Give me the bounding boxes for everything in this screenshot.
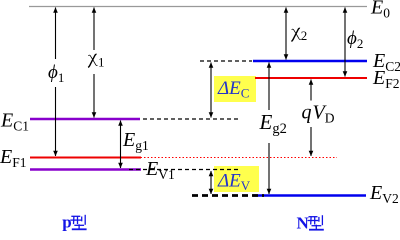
svg-text:N: N [297,214,310,233]
vacuum level E0 line [29,6,367,8]
band gap Eg2 arrow lower [268,143,270,194]
svg-text:1: 1 [98,55,105,70]
conduction band offset dEC arrow [210,63,212,118]
dashed extension of EC1 [143,118,239,120]
svg-text:2: 2 [301,28,308,43]
svg-text:EC1: EC1 [0,110,29,134]
valence band EV2 line [253,194,366,197]
label chi1 [88,54,97,67]
electron affinity chi2 arrow [285,8,287,60]
conduction band EC1 line [30,118,140,121]
built-in potential qVD arrow upper [310,80,312,101]
work function phi1 arrow upper [55,8,57,60]
Fermi level EF1 line [30,157,141,159]
CJK xing glyph of p-type [70,215,86,230]
highlight box dEC [214,76,256,102]
band gap Eg1 arrow [120,121,122,169]
dotted Fermi alignment line [137,157,337,159]
svg-text:E0: E0 [370,0,390,21]
electron affinity chi1 arrow upper [93,8,95,51]
electron affinity chi1 arrow lower [93,74,95,118]
svg-text:p: p [62,213,71,232]
dashed extension of EC2 [200,60,252,62]
svg-text:ϕ2: ϕ2 [347,28,363,51]
conduction band EC2 line [253,60,367,63]
svg-text:EV2: EV2 [369,182,399,206]
svg-text:qVD: qVD [302,102,335,126]
svg-text:Eg1: Eg1 [122,129,149,153]
CJK xing glyph of N-type [308,215,324,230]
svg-text:EF1: EF1 [0,146,26,170]
Fermi level EF2 line [255,77,367,79]
highlight box dEV [214,166,259,192]
svg-text:Eg2: Eg2 [259,110,287,137]
label chi2 [291,28,300,41]
valence band offset dEV arrow [210,171,212,194]
svg-text:ϕ1: ϕ1 [48,62,64,85]
work function phi2 arrow [344,8,346,77]
thick dashed extension of EV2 [192,194,264,197]
band gap Eg2 arrow upper [268,63,270,111]
svg-text:EV1: EV1 [145,158,175,182]
valence band EV1 line [30,168,141,171]
built-in potential qVD arrow lower [310,127,312,156]
dashed extension of EV1 [129,169,238,171]
work function phi1 arrow lower [55,87,57,156]
